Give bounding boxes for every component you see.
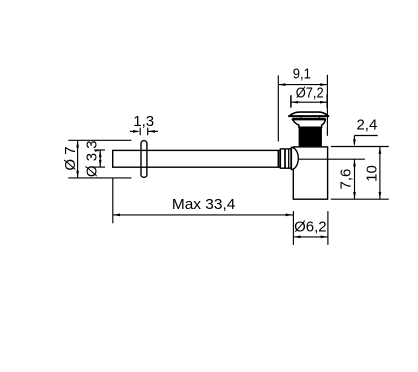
dim 1,3 left extension tick [139,128,141,136]
dim Ø7 up arrow [76,140,79,147]
dim Ø7,2 right arrow [320,101,327,104]
dim 10 dimension line [379,147,381,200]
dim 1,3 right extension tick [147,128,149,136]
compression nut [280,149,291,168]
pop-up valve black cylinder [299,127,322,146]
dim 2,4 down arrow [353,139,356,146]
svg-text:Max 33,4: Max 33,4 [172,196,236,213]
svg-text:1,3: 1,3 [133,113,154,130]
dim 9,1 dimension line [278,84,327,86]
dim 1,3 left segment [130,130,137,132]
dim Ø6,2 right arrow [321,236,328,239]
wall flange [141,141,147,178]
dim Ø6,2 dimension line [293,236,328,238]
svg-text:7,6: 7,6 [337,169,354,190]
svg-text:Ø7,2: Ø7,2 [296,84,324,101]
dim Ø7 dimension line [77,140,79,178]
dim Ø3,3 dimension line [99,150,101,167]
dim Ø7 bottom extension line [68,177,131,179]
dim 2,4 leader [354,135,377,137]
dim Ø7,2 left arrow [291,101,298,104]
svg-text:9,1: 9,1 [293,65,311,82]
dim Ø7 down arrow [76,171,79,178]
dim 1,3 right segment [148,130,158,132]
pop-up cap brim [288,115,329,117]
dim 9,1 right extension line [326,75,328,136]
dim 10 up arrow [379,147,382,154]
dim 9,1 left extension line [277,75,279,141]
nut rib 2 [284,149,286,168]
dim 9,1 left arrow [278,83,285,86]
dim Ø3,3 up arrow [99,150,102,157]
compression nut collar [278,150,280,167]
dim Max 33,4 dimension line [113,214,293,216]
nut rib 3 [288,149,290,168]
dim Ø6,2 left arrow [293,236,300,239]
pipe centerline extension (7,6 upper reference) [298,158,365,160]
dim 10 bottom extension line [331,198,389,200]
cap rim tick right [318,115,320,120]
dim Ø6,2 left extension line [292,211,294,245]
dim Ø3,3 down arrow [99,160,102,167]
dim Max left extension line [112,178,114,223]
dim 1,3 right arrow (pointing left) [148,130,155,133]
nut nose cone [291,147,298,169]
siphon body [293,147,327,199]
dim Ø6,2 right extension line [327,211,329,245]
svg-text:Ø 7: Ø 7 [62,146,79,170]
dim Max right arrow [286,214,293,217]
dim Ø3,3 top extension line [94,149,105,151]
dim 7,6 up arrow [353,159,356,166]
pop-up cap dome [290,112,327,115]
dim Ø7,2 dimension line [291,101,327,103]
dim 2,4 arrow stem [353,136,355,145]
svg-text:Ø6,2: Ø6,2 [294,219,327,236]
dim Ø3,3 bottom extension line [94,166,105,168]
dim 1,3 left arrow (pointing right) [133,130,140,133]
dim Ø7 top extension line [68,139,131,141]
svg-text:Ø 3,3: Ø 3,3 [84,140,101,177]
cap rim tick left [300,115,302,120]
dim 10 down arrow [379,192,382,199]
pop-up cap neck [293,120,326,128]
dim Max left arrow [113,214,120,217]
dim 10 top extension line [331,146,389,148]
inlet pipe (tailpiece) [113,150,285,167]
dim 7,6 dimension line [354,159,356,199]
dim 9,1 right arrow [320,83,327,86]
dim Ø7,2 right tick [326,95,328,108]
dim Ø7,2 left tick [290,95,292,107]
dim 7,6 down arrow [353,192,356,199]
svg-text:10: 10 [364,165,381,182]
svg-text:2,4: 2,4 [356,116,377,133]
pop-up cap lower rim [292,118,325,120]
